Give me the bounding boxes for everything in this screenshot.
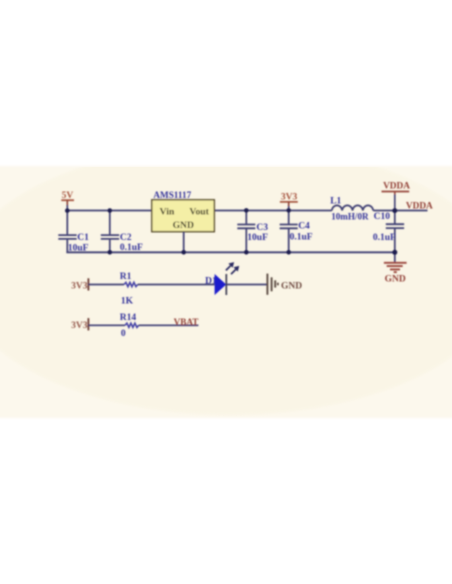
regulator U1 AMS1117: [152, 190, 215, 253]
junction VDDA / C10: [392, 208, 397, 213]
junction C2 top: [108, 208, 113, 213]
C3 plates: [237, 224, 255, 226]
power port 3V3 (VBAT row): [71, 318, 88, 331]
inductor L1: [330, 196, 373, 221]
svg-text:C1: C1: [77, 233, 89, 243]
svg-text:0.1uF: 0.1uF: [120, 243, 143, 253]
svg-text:R1: R1: [120, 272, 132, 282]
svg-text:C4: C4: [298, 222, 310, 232]
D1 emission arrow 1: [226, 266, 231, 271]
svg-text:3V3: 3V3: [281, 192, 298, 202]
wire to ground symbol: [394, 252, 396, 262]
wire U1 GND pin to ground rail: [183, 232, 185, 253]
wire C4 bottom lead: [288, 229, 290, 253]
svg-text:C3: C3: [256, 223, 268, 233]
svg-text:3V3: 3V3: [71, 281, 88, 291]
C1 plates: [58, 234, 76, 236]
ground symbol GND (earth, below C10): [384, 252, 407, 284]
resistor R1: [120, 272, 138, 306]
svg-text:10uF: 10uF: [247, 233, 268, 243]
wire C2 bottom lead: [109, 240, 111, 253]
D1 cathode bar: [225, 274, 227, 295]
svg-text:GND: GND: [385, 274, 406, 284]
svg-text:R14: R14: [120, 313, 137, 323]
wire C1 top lead: [66, 211, 68, 235]
svg-text:Vin: Vin: [160, 206, 175, 217]
junction C3 top: [244, 208, 249, 213]
capacitor C4: [280, 210, 313, 253]
svg-text:0.1uF: 0.1uF: [373, 233, 396, 243]
C4 plates: [280, 224, 298, 226]
svg-text:10uF: 10uF: [68, 244, 89, 254]
svg-text:VDDA: VDDA: [383, 181, 410, 191]
svg-text:VDDA: VDDA: [406, 202, 433, 212]
wire bottom ground rail: [66, 251, 394, 253]
wire: 3V3 port to R14: [88, 324, 125, 326]
svg-text:10mH/0R: 10mH/0R: [331, 211, 369, 221]
svg-text:0: 0: [121, 329, 126, 339]
junction C4 bottom: [286, 250, 291, 255]
junction C10 bottom: [392, 250, 397, 255]
power ground GND (LED row, sideways bars): [267, 274, 302, 295]
capacitor C3: [237, 210, 268, 253]
R1 zigzag: [124, 282, 138, 286]
power port VDDA: [382, 181, 411, 211]
svg-text:0.1uF: 0.1uF: [290, 233, 313, 243]
wire C10 top lead: [394, 211, 396, 224]
wire: R1 to D1 anode: [138, 284, 215, 286]
wire C4 top lead: [288, 210, 290, 224]
junction C3 bottom: [244, 250, 249, 255]
wire: D1 cathode to ground: [226, 284, 266, 286]
wire C3 bottom lead: [245, 229, 247, 253]
D1 emission arrow 2: [231, 270, 236, 275]
R14 zigzag: [125, 323, 139, 327]
svg-text:GND: GND: [173, 220, 194, 231]
junction 5V / C1: [65, 208, 70, 213]
wire: node VDDA stub to VDDA net label: [395, 210, 428, 212]
C10 plates: [386, 223, 404, 225]
wire top rail: U1 Vout pin to L1 pin 1: [214, 210, 332, 212]
L1 winding: [332, 205, 373, 210]
resistor R14: [120, 313, 139, 339]
D1 triangle: [215, 274, 227, 295]
wire C2 top lead: [109, 211, 111, 235]
wire: 3V3 port to R1: [88, 284, 124, 286]
wire C1 bottom lead: [66, 240, 68, 253]
capacitor C1: [58, 211, 89, 254]
svg-text:C2: C2: [120, 233, 132, 243]
svg-text:1K: 1K: [121, 296, 134, 306]
U1 body: [152, 200, 215, 232]
C2 plates: [101, 234, 119, 236]
svg-text:3V3: 3V3: [71, 321, 88, 331]
svg-text:Vout: Vout: [189, 206, 209, 217]
power port 3V3 (LED row): [71, 278, 88, 291]
wire: L1 pin 2 to node VDDA: [373, 210, 395, 212]
wire C10 bottom lead: [394, 229, 396, 253]
svg-text:VBAT: VBAT: [174, 317, 199, 327]
wire: R14 to VBAT: [139, 324, 199, 326]
earth bars: [384, 262, 407, 264]
wire C3 top lead: [245, 210, 247, 224]
svg-text:C10: C10: [374, 212, 391, 222]
junction U1 GND: [181, 250, 186, 255]
power port 3V3 (top rail): [280, 192, 298, 211]
junction C4 / 3V3: [286, 208, 291, 213]
capacitor C10: [373, 211, 404, 253]
wire top rail: 5V node to U1 Vin pin: [67, 210, 152, 212]
capacitor C2: [101, 211, 143, 254]
svg-text:GND: GND: [281, 281, 302, 291]
LED D1: [205, 262, 239, 295]
svg-text:AMS1117: AMS1117: [153, 190, 191, 200]
power port 5V: [61, 191, 74, 211]
junction C2 bottom: [108, 250, 113, 255]
